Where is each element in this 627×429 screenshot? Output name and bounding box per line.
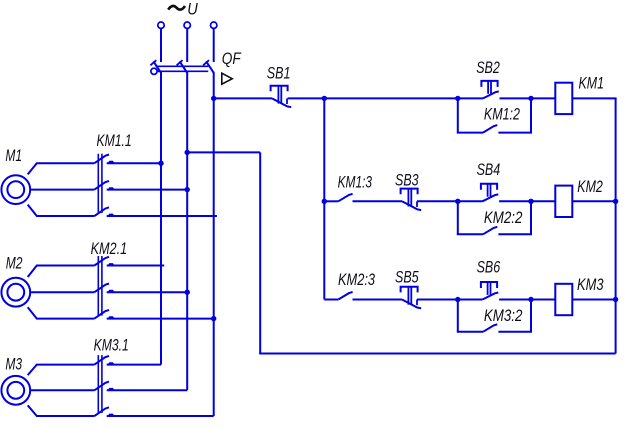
wire xyxy=(259,152,261,353)
contactor power contacts KM1.1 mechanical link xyxy=(97,154,99,213)
pushbutton SB5 actuator xyxy=(401,287,418,293)
wire xyxy=(458,299,483,301)
auxiliary contact KM1:2 blade xyxy=(483,125,497,133)
wire xyxy=(107,215,217,217)
svg-text:KM3: KM3 xyxy=(577,276,604,294)
junction on L3 (control feed) xyxy=(211,96,216,101)
wire xyxy=(28,405,95,416)
junction on right bus (rung3) xyxy=(613,297,618,302)
wire xyxy=(457,233,483,235)
circuit breaker QF pole 3 blade xyxy=(206,61,214,73)
pushbutton SB2 actuator xyxy=(481,81,497,87)
contact KM1.1 pole 3 blade xyxy=(94,207,109,216)
junction left bus top xyxy=(322,96,327,101)
wire xyxy=(458,97,483,99)
pushbutton SB6 (NO) blade xyxy=(483,293,499,300)
junction xyxy=(528,297,533,302)
pushbutton SB1 actuator xyxy=(271,86,288,92)
svg-text:KM1:3: KM1:3 xyxy=(338,174,373,192)
svg-text:M3: M3 xyxy=(5,355,22,373)
wire xyxy=(187,151,260,153)
wire xyxy=(457,132,483,134)
contactor coil KM2 xyxy=(555,186,572,217)
contact KM2.1 pole 2 fixed-side arc xyxy=(108,290,114,292)
wire xyxy=(531,97,555,99)
wire xyxy=(530,300,532,332)
wire xyxy=(572,299,615,301)
wire xyxy=(498,233,532,235)
wire xyxy=(457,300,459,332)
wire xyxy=(186,28,188,62)
wire xyxy=(498,132,532,134)
wire xyxy=(499,299,531,301)
wire xyxy=(107,364,161,366)
svg-text:KM3:2: KM3:2 xyxy=(484,307,523,325)
wire xyxy=(107,318,214,320)
wire right bus xyxy=(615,98,617,353)
circuit breaker QF tie bar xyxy=(156,65,209,67)
motor M1 xyxy=(1,175,30,204)
junction xyxy=(528,96,533,101)
contact KM3.1 pole 2 blade xyxy=(94,382,109,391)
svg-text:KM3.1: KM3.1 xyxy=(94,336,129,354)
junction on right bus (rung2) xyxy=(613,199,618,204)
motor M3 xyxy=(1,376,30,405)
contact KM1.1 pole 1 blade xyxy=(94,155,109,164)
contactor coil KM3 xyxy=(555,284,572,315)
contact KM3.1 pole 1 fixed-side arc xyxy=(108,362,114,364)
junction on L2 (control return) xyxy=(185,150,190,155)
junction xyxy=(455,199,460,204)
svg-text:SB2: SB2 xyxy=(476,59,500,77)
wire xyxy=(28,205,95,216)
junction xyxy=(158,161,163,166)
wire xyxy=(214,97,272,99)
auxiliary contact KM2:2 blade xyxy=(483,227,497,235)
wire xyxy=(530,201,532,234)
wire xyxy=(28,365,95,376)
circuit breaker QF pole 3 latch tick xyxy=(203,60,209,65)
wire xyxy=(107,265,165,267)
wire xyxy=(499,200,531,202)
wire xyxy=(288,97,325,99)
wire xyxy=(28,163,95,174)
junction xyxy=(211,316,216,321)
svg-text:SB3: SB3 xyxy=(395,171,419,189)
svg-text:SB1: SB1 xyxy=(267,64,291,82)
svg-text:M2: M2 xyxy=(6,254,23,272)
pushbutton SB5 (NC) blade xyxy=(402,300,421,309)
circuit breaker QF release circle xyxy=(151,68,157,74)
pushbutton SB4 actuator xyxy=(481,184,497,190)
wire xyxy=(324,97,458,99)
contact KM1.1 pole 2 fixed-side arc xyxy=(108,187,114,189)
pushbutton SB5 fixed seat xyxy=(416,300,418,306)
wire xyxy=(213,28,215,62)
contact KM1.1 pole 3 fixed-side arc xyxy=(108,214,114,216)
wire xyxy=(457,331,483,333)
svg-text:KM1: KM1 xyxy=(579,75,605,93)
supply terminal L3 xyxy=(211,22,217,28)
wire xyxy=(530,98,532,132)
wire xyxy=(107,162,161,164)
svg-text:KM2:3: KM2:3 xyxy=(338,271,376,289)
junction xyxy=(455,96,460,101)
svg-text:KM1.1: KM1.1 xyxy=(97,132,132,150)
pushbutton SB6 actuator xyxy=(481,282,497,288)
wire bottom return xyxy=(259,353,615,355)
wire xyxy=(572,200,615,202)
wire phase L3 xyxy=(213,72,215,416)
junction xyxy=(528,199,533,204)
contact KM2.1 pole 1 fixed-side arc xyxy=(108,263,114,265)
junction xyxy=(455,297,460,302)
wire xyxy=(107,291,188,293)
wire xyxy=(353,299,403,301)
contact KM1.1 pole 2 blade xyxy=(94,181,109,190)
wire xyxy=(30,291,94,293)
pushbutton SB3 fixed seat xyxy=(416,201,418,207)
wire xyxy=(324,200,338,202)
contact KM2.1 pole 1 blade xyxy=(94,257,109,266)
supply terminal L2 xyxy=(184,22,190,28)
svg-text:KM2: KM2 xyxy=(577,178,603,196)
wire phase L2 xyxy=(186,72,188,391)
contact KM2.1 pole 2 blade xyxy=(94,284,109,293)
wire xyxy=(107,415,214,417)
svg-text:KM2.1: KM2.1 xyxy=(91,240,128,258)
wire xyxy=(353,200,403,202)
wire left bus xyxy=(323,98,325,299)
svg-text:M1: M1 xyxy=(5,147,22,165)
auxiliary contact KM3:2 blade xyxy=(483,324,497,332)
wire xyxy=(531,200,555,202)
pushbutton SB3 actuator xyxy=(401,189,418,195)
contactor power contacts KM3.1 mechanical link xyxy=(97,355,99,413)
pushbutton SB3 (NC) blade xyxy=(402,201,421,210)
svg-text:SB6: SB6 xyxy=(477,259,501,277)
wire xyxy=(107,189,188,191)
wire xyxy=(160,28,162,62)
circuit breaker QF trip triangle xyxy=(222,73,232,84)
contact KM3.1 pole 2 fixed-side arc xyxy=(108,388,114,390)
junction on left bus (rung2) xyxy=(322,199,327,204)
pushbutton SB1 (NC) blade xyxy=(272,98,291,107)
pushbutton SB1 fixed seat xyxy=(286,98,288,104)
wire xyxy=(417,200,458,202)
wire xyxy=(457,201,459,234)
contact KM2.1 pole 3 blade xyxy=(94,310,109,319)
contact KM1.1 pole 1 fixed-side arc xyxy=(108,161,114,163)
auxiliary contact KM2:3 blade xyxy=(338,292,352,300)
wire xyxy=(500,97,532,99)
wire xyxy=(498,331,532,333)
circuit breaker QF pole 1 latch tick xyxy=(150,60,156,65)
wire xyxy=(458,200,483,202)
svg-text:U: U xyxy=(187,1,198,19)
contact KM2.1 pole 3 fixed-side arc xyxy=(108,316,114,318)
motor M2 xyxy=(1,278,30,307)
svg-text:SB4: SB4 xyxy=(477,161,501,179)
contact KM3.1 pole 1 blade xyxy=(94,356,109,365)
circuit breaker QF pole 2 blade xyxy=(180,61,188,73)
wire xyxy=(572,97,616,99)
supply terminal L1 xyxy=(158,22,164,28)
svg-text:KM1:2: KM1:2 xyxy=(484,105,520,123)
wire xyxy=(30,189,94,191)
svg-text:KM2:2: KM2:2 xyxy=(484,209,523,227)
wire xyxy=(28,266,95,278)
pushbutton SB4 (NO) blade xyxy=(483,194,499,201)
contact KM3.1 pole 3 blade xyxy=(94,407,109,416)
auxiliary contact KM1:3 blade xyxy=(338,194,352,202)
contactor power contacts KM2.1 mechanical link xyxy=(97,256,99,316)
wire xyxy=(417,299,458,301)
circuit breaker QF pole 2 latch tick xyxy=(177,60,183,65)
circuit breaker QF pole 1 blade xyxy=(153,61,161,73)
svg-text:QF: QF xyxy=(222,50,242,68)
net ~U supply label (tilde) xyxy=(168,6,185,10)
contact KM3.1 pole 3 fixed-side arc xyxy=(108,414,114,416)
junction xyxy=(185,187,190,192)
wire xyxy=(324,299,338,301)
contactor coil KM1 xyxy=(555,83,572,114)
junction xyxy=(185,290,190,295)
pushbutton SB2 (NO) blade xyxy=(483,91,499,98)
wire xyxy=(457,98,459,132)
wire xyxy=(28,307,95,318)
svg-text:SB5: SB5 xyxy=(395,269,419,287)
wire xyxy=(107,389,188,391)
wire phase L1 xyxy=(160,72,162,365)
wire xyxy=(531,299,555,301)
wire xyxy=(30,389,94,391)
